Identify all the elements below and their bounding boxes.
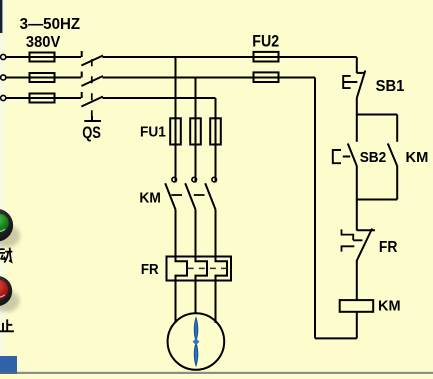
wire KM pole2 to FR (195, 210, 197, 257)
wire branch right to KM aux (396, 115, 398, 142)
QS linkage dashed (91, 59, 93, 117)
terminal L1 (1, 54, 6, 59)
svg-text:KM: KM (406, 150, 429, 166)
wire FR contact to coil (356, 260, 358, 300)
motor propeller blue (193, 318, 200, 366)
SB1 fixed contact tick (357, 72, 365, 74)
wire SB1 to branch (356, 98, 358, 115)
QS pole 1 fixed contact (81, 51, 83, 57)
KM main pole2 blade (185, 183, 195, 209)
KM main pole1 blade (165, 183, 175, 209)
wire coil to bottom (356, 312, 358, 339)
wire KM aux down (396, 166, 398, 200)
fuse FU2-a (254, 52, 279, 62)
QS pole 3 blade (81, 97, 103, 107)
motor M circle (168, 313, 225, 370)
QS pole 1 blade (81, 56, 103, 66)
svg-text:380V: 380V (26, 34, 61, 52)
svg-text:FR: FR (141, 261, 159, 278)
svg-text:SB1: SB1 (376, 78, 405, 96)
FR linkage dashed (188, 267, 229, 269)
control left rail down (314, 78, 316, 339)
SB1 button cap (343, 76, 357, 88)
wire FR to motor right (215, 281, 217, 324)
FR heater 3 (216, 257, 228, 281)
fuse FU-L3 (30, 94, 55, 103)
wire drop phase3 to FU1 (215, 98, 217, 182)
wire drop phase2 to FU1 (195, 78, 197, 183)
KM main pole3 blade (205, 183, 215, 209)
wire L3 left (6, 97, 81, 99)
FR contact fixed tick (357, 229, 375, 231)
wire L1 left (6, 56, 81, 58)
svg-text:3—50HZ: 3—50HZ (20, 16, 81, 33)
wire FR to motor left (175, 281, 177, 324)
wire SB2 down to FR contact (356, 166, 358, 231)
svg-text:FU2: FU2 (252, 33, 279, 51)
wire L3 right (103, 97, 216, 99)
chinese char 止 (stop), clipped (0, 319, 14, 331)
wire KM pole3 to FR (215, 210, 217, 257)
SB2 button cap (333, 150, 350, 163)
fuse FU2-b (254, 72, 279, 82)
KM coil (340, 300, 374, 312)
wire L2 right (103, 77, 316, 79)
FR heater 1 (176, 257, 188, 281)
FR contact blade (357, 229, 372, 261)
KM main pole3 terminal circle (212, 177, 217, 182)
wire KM pole1 to FR (175, 210, 177, 257)
wire L2 left (6, 77, 81, 79)
wire down to SB1 (356, 57, 358, 73)
fuse FU1-c (210, 118, 221, 144)
red stop button (clipped at left edge) (0, 276, 20, 312)
KM aux blade (388, 144, 397, 167)
KM main pole1 terminal circle (172, 177, 177, 182)
terminal L3 (1, 95, 6, 100)
FR contact thermal actuator (342, 229, 363, 251)
FR heater 2 (196, 257, 208, 281)
left edge light gradient (0, 0, 12, 374)
svg-text:FU1: FU1 (140, 124, 166, 141)
wire drop phase1 to FU1 (175, 57, 177, 182)
svg-text:FR: FR (379, 240, 398, 257)
QS pole 2 fixed contact (81, 72, 83, 78)
control bottom wire (315, 337, 357, 339)
fuse FU1-a (170, 118, 181, 144)
SB1 blade (357, 71, 366, 99)
KM linkage dashed (171, 194, 213, 196)
bottom edge thin line (0, 372, 433, 374)
branch bottom wire (357, 199, 397, 201)
wire FR to motor mid (195, 281, 197, 314)
QS pole 2 blade (81, 76, 103, 86)
branch top wire (357, 114, 397, 116)
fuse FU-L1 (30, 53, 55, 62)
top-left corner dark sliver (0, 0, 2, 33)
chinese char 动 (start), clipped (0, 248, 12, 263)
bottom-left blue block (0, 356, 17, 374)
svg-text:SB2: SB2 (360, 150, 387, 167)
green start button (clipped at left edge) (0, 209, 20, 248)
SB2 blade (348, 144, 357, 167)
FR box (167, 257, 232, 281)
QS handle stub (91, 116, 93, 120)
KM main pole2 terminal circle (192, 177, 197, 182)
fuse FU-L2 (30, 73, 55, 82)
fuse FU1-b (190, 118, 201, 144)
wire branch left to SB2 (356, 115, 358, 142)
svg-text:KM: KM (139, 190, 160, 207)
QS pole 3 fixed contact (81, 92, 83, 98)
QS handle bar (84, 120, 101, 122)
terminal L2 (1, 75, 6, 80)
svg-text:QS: QS (82, 125, 101, 143)
svg-text:KM: KM (378, 299, 401, 315)
wire L1 right (103, 56, 357, 58)
